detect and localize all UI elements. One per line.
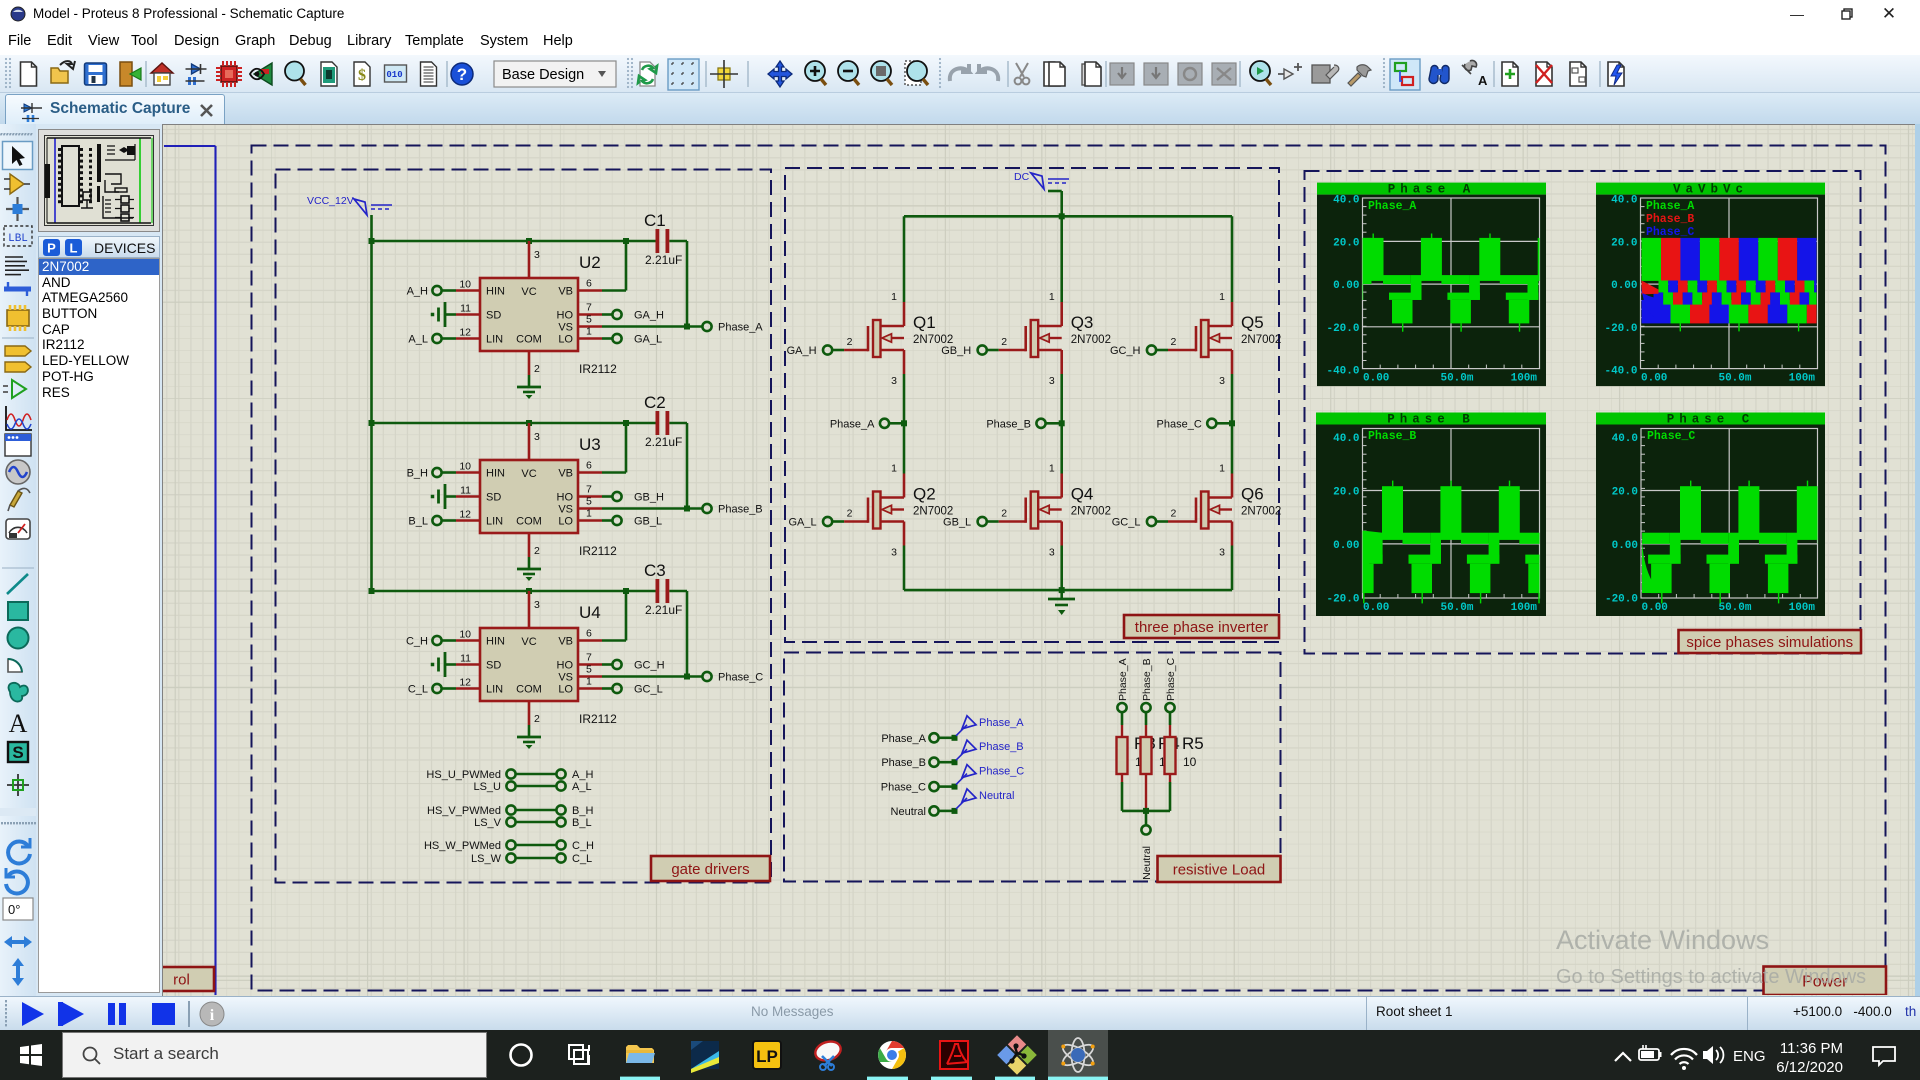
pin VC stub of U3 bbox=[528, 423, 531, 460]
terminal Phase_C (driver side) bbox=[702, 672, 763, 684]
source link bbox=[881, 520, 905, 523]
svg-text:A_L: A_L bbox=[572, 781, 592, 793]
gate plate bbox=[867, 326, 870, 351]
junction rail-start U4 bbox=[369, 588, 375, 594]
svg-text:0.00: 0.00 bbox=[1641, 373, 1667, 385]
svg-text:Phase C: Phase C bbox=[1667, 413, 1755, 427]
svg-text:20.0: 20.0 bbox=[1611, 237, 1637, 249]
terminal Phase_B (load input) with wire label arrow bbox=[881, 740, 1023, 769]
section box: gate drivers (dashed) bbox=[276, 170, 772, 883]
svg-text:40.0: 40.0 bbox=[1611, 195, 1637, 207]
left panel: overview + devices bbox=[36, 124, 162, 996]
svg-text:Phase_A: Phase_A bbox=[830, 418, 875, 430]
svg-text:3: 3 bbox=[534, 249, 540, 261]
svg-text:Phase_A: Phase_A bbox=[881, 733, 926, 745]
svg-text:HS_W_PWMed: HS_W_PWMed bbox=[424, 840, 501, 852]
terminal B_H (HIN input of U3) bbox=[407, 468, 456, 480]
svg-text:2N7002: 2N7002 bbox=[1071, 506, 1111, 518]
svg-text:11: 11 bbox=[460, 653, 471, 665]
transistor Q5 2N7002 N-MOSFET bbox=[1156, 291, 1281, 387]
svg-text:3: 3 bbox=[534, 599, 540, 611]
wire VCC rail for U2 bbox=[372, 240, 688, 243]
tab row bbox=[0, 93, 1920, 124]
terminal pair HS_V_PWMed to B_H bbox=[427, 805, 593, 817]
wire mid column (Phase_A node) bbox=[903, 374, 906, 474]
window title bar bbox=[0, 0, 1920, 28]
drain link bbox=[1038, 325, 1062, 328]
wire drain column top (Phase_A leg) bbox=[903, 216, 906, 302]
pin HO stub bbox=[578, 663, 602, 666]
SD antenna marker of U3 bbox=[431, 484, 456, 509]
junction at VS/Phase_C of U4 bbox=[684, 674, 690, 680]
svg-text:A: A bbox=[9, 709, 28, 738]
channel bar bbox=[1031, 492, 1039, 529]
svg-text:10: 10 bbox=[459, 279, 471, 291]
terminal GC_L (gate of Q6) bbox=[1112, 517, 1156, 529]
pin VS stub bbox=[578, 675, 602, 678]
terminal GB_H (gate of Q3) bbox=[941, 345, 987, 357]
svg-text:50.0m: 50.0m bbox=[1440, 373, 1473, 385]
svg-text:spice phases simulations: spice phases simulations bbox=[1686, 634, 1853, 651]
resistor R4 value 10 bbox=[1141, 725, 1180, 811]
svg-text:VCC_12V: VCC_12V bbox=[307, 195, 354, 207]
svg-text:GA_L: GA_L bbox=[788, 517, 816, 529]
junction on rail at VC of U2 bbox=[526, 238, 532, 244]
svg-text:A_H: A_H bbox=[572, 769, 593, 781]
svg-text:10: 10 bbox=[459, 461, 471, 473]
source link bbox=[1038, 349, 1062, 352]
pin HO stub bbox=[578, 495, 602, 498]
svg-text:Phase_C: Phase_C bbox=[1165, 657, 1177, 701]
wire into R4 top bbox=[1145, 712, 1148, 725]
svg-text:HO: HO bbox=[557, 310, 574, 322]
source link bbox=[1209, 520, 1233, 523]
wire top DC bus bbox=[904, 215, 1232, 218]
svg-text:Phase_A: Phase_A bbox=[1368, 200, 1416, 213]
SD antenna marker of U4 bbox=[431, 652, 456, 677]
svg-text:2.21uF: 2.21uF bbox=[645, 253, 682, 267]
channel bar bbox=[1031, 320, 1039, 357]
junction rail-start U2 bbox=[369, 238, 375, 244]
svg-text:A_L: A_L bbox=[408, 334, 428, 346]
terminal GC_H (HO output of U4) bbox=[602, 660, 665, 672]
svg-text:U4: U4 bbox=[579, 603, 601, 622]
svg-text:Q1: Q1 bbox=[913, 313, 936, 332]
label box "three phase inverter" bbox=[1124, 615, 1279, 638]
svg-text:20.0: 20.0 bbox=[1612, 487, 1638, 499]
pin HO stub bbox=[578, 313, 602, 316]
power symbol VCC_12V bbox=[307, 195, 392, 215]
gate wire of Q5 bbox=[1156, 349, 1168, 352]
svg-text:-40.0: -40.0 bbox=[1326, 366, 1359, 378]
svg-text:0.00: 0.00 bbox=[1363, 602, 1389, 614]
terminal pair LS_V to B_L bbox=[474, 817, 592, 829]
svg-text:40.0: 40.0 bbox=[1612, 433, 1638, 445]
svg-text:?: ? bbox=[457, 65, 467, 84]
junction Phase_B node bbox=[1059, 420, 1065, 426]
svg-text:2: 2 bbox=[1001, 336, 1007, 348]
svg-text:B_L: B_L bbox=[408, 516, 428, 528]
svg-text:VC: VC bbox=[521, 468, 536, 480]
pin LO stub bbox=[578, 337, 602, 340]
svg-text:U2: U2 bbox=[579, 253, 601, 272]
svg-text:B_L: B_L bbox=[572, 817, 592, 829]
svg-text:-20.0: -20.0 bbox=[1326, 593, 1359, 605]
terminal Phase_A (inverter output) bbox=[830, 418, 904, 430]
wire DC feed bbox=[1048, 191, 1062, 216]
svg-text:40.0: 40.0 bbox=[1333, 195, 1359, 207]
IC U3 IR2112 gate driver bbox=[456, 423, 617, 558]
svg-text:Phase_C: Phase_C bbox=[881, 782, 926, 794]
svg-text:Phase_A: Phase_A bbox=[1646, 200, 1694, 213]
svg-text:VC: VC bbox=[521, 286, 536, 298]
svg-text:-40.0: -40.0 bbox=[1604, 366, 1637, 378]
label box "control" (clipped at left edge) bbox=[149, 967, 214, 991]
junction on rail at VB branch of U4 bbox=[623, 588, 629, 594]
svg-text:Phase B: Phase B bbox=[1387, 413, 1475, 427]
terminal GB_L (gate of Q4) bbox=[943, 517, 987, 529]
svg-text:3: 3 bbox=[1049, 547, 1055, 559]
svg-text:C_H: C_H bbox=[406, 636, 428, 648]
svg-text:COM: COM bbox=[516, 334, 542, 346]
pin VC stub of U2 bbox=[528, 241, 531, 278]
wire source column bottom (Phase_B leg) bbox=[1060, 546, 1063, 591]
svg-text:3: 3 bbox=[1219, 375, 1225, 387]
ground symbol below U2 COM bbox=[517, 375, 541, 399]
svg-text:HIN: HIN bbox=[486, 636, 505, 648]
svg-text:2: 2 bbox=[847, 508, 853, 520]
gate wire of Q1 bbox=[832, 349, 844, 352]
svg-text:1: 1 bbox=[586, 326, 592, 338]
terminal B_L (LIN input of U3) bbox=[408, 516, 456, 528]
svg-text:S: S bbox=[12, 743, 23, 762]
transistor Q4 2N7002 N-MOSFET bbox=[987, 463, 1111, 559]
svg-text:HS_U_PWMed: HS_U_PWMed bbox=[426, 769, 501, 781]
svg-text:Q3: Q3 bbox=[1071, 313, 1094, 332]
svg-text:-20.0: -20.0 bbox=[1604, 323, 1637, 335]
svg-text:010: 010 bbox=[386, 70, 402, 80]
svg-text:i: i bbox=[210, 1007, 215, 1024]
gate plate bbox=[1195, 326, 1198, 351]
pin VC stub of U4 bbox=[528, 591, 531, 628]
svg-text:LO: LO bbox=[558, 684, 573, 696]
gate plate bbox=[1195, 498, 1198, 523]
pin COM stub of U4 bbox=[528, 701, 531, 725]
svg-text:12: 12 bbox=[459, 677, 471, 689]
svg-text:GC_H: GC_H bbox=[1110, 345, 1141, 357]
svg-text:7: 7 bbox=[586, 302, 592, 314]
svg-text:0.00: 0.00 bbox=[1363, 373, 1389, 385]
svg-text:VB: VB bbox=[558, 636, 573, 648]
wire VB branch of U4 bbox=[602, 591, 626, 641]
graph VaVbVc (oscilloscope, 3 traces) bbox=[1596, 183, 1825, 387]
section box: outer Power region (dashed) bbox=[252, 146, 1886, 991]
svg-text:100m: 100m bbox=[1789, 602, 1816, 614]
substrate arrow bbox=[1050, 508, 1062, 510]
svg-text:LS_U: LS_U bbox=[473, 781, 501, 793]
svg-text:2: 2 bbox=[1001, 508, 1007, 520]
svg-text:5: 5 bbox=[586, 664, 592, 676]
wire cap to Phase_B node of U3 bbox=[602, 423, 702, 509]
svg-text:3: 3 bbox=[891, 547, 897, 559]
wire drain column top (Phase_C leg) bbox=[1231, 216, 1234, 302]
substrate arrow bbox=[1050, 337, 1062, 339]
svg-text:COM: COM bbox=[516, 516, 542, 528]
svg-text:3: 3 bbox=[534, 431, 540, 443]
section box: spice phases simulations (dashed) bbox=[1305, 171, 1861, 654]
svg-text:11: 11 bbox=[460, 485, 471, 497]
pin HIN stub bbox=[456, 289, 480, 292]
junction Phase_A node bbox=[901, 420, 907, 426]
svg-text:2N7002: 2N7002 bbox=[1241, 506, 1281, 518]
svg-text:Q2: Q2 bbox=[913, 485, 936, 504]
svg-text:Base Design: Base Design bbox=[502, 67, 584, 83]
svg-text:Phase_C: Phase_C bbox=[1646, 226, 1694, 239]
drain link bbox=[1209, 496, 1233, 499]
resistor R5 value 10 bbox=[1165, 725, 1204, 782]
svg-text:GA_H: GA_H bbox=[634, 310, 664, 322]
svg-text:GA_H: GA_H bbox=[787, 345, 817, 357]
svg-text:A_H: A_H bbox=[407, 286, 428, 298]
svg-text:0.00: 0.00 bbox=[1333, 280, 1359, 292]
IC U4 IR2112 gate driver bbox=[456, 591, 617, 726]
terminal C_L (LIN input of U4) bbox=[408, 684, 456, 696]
svg-text:VS: VS bbox=[558, 672, 573, 684]
svg-text:Neutral: Neutral bbox=[979, 790, 1014, 802]
gate wire of Q4 bbox=[987, 520, 999, 523]
svg-text:DC: DC bbox=[1014, 171, 1030, 183]
svg-text:COM: COM bbox=[516, 684, 542, 696]
channel bar bbox=[1201, 492, 1209, 529]
junction Phase_C node bbox=[1229, 420, 1235, 426]
svg-text:VS: VS bbox=[558, 322, 573, 334]
label box "gate drivers" bbox=[651, 856, 770, 881]
svg-text:3: 3 bbox=[891, 375, 897, 387]
terminal Phase_A (above R3) bbox=[1117, 658, 1129, 712]
source link bbox=[1209, 349, 1233, 352]
junction on rail at VB branch of U3 bbox=[623, 420, 629, 426]
wire mid column (Phase_B node) bbox=[1060, 374, 1063, 474]
svg-text:IR2112: IR2112 bbox=[579, 362, 617, 376]
svg-text:Phase_B: Phase_B bbox=[881, 757, 926, 769]
terminal C_H (HIN input of U4) bbox=[406, 636, 456, 648]
IC U2 IR2112 gate driver bbox=[456, 241, 617, 376]
svg-text:gate drivers: gate drivers bbox=[671, 861, 749, 878]
svg-text:0.00: 0.00 bbox=[1642, 602, 1668, 614]
svg-text:Phase A: Phase A bbox=[1388, 183, 1476, 197]
terminal GA_L (gate of Q2) bbox=[788, 517, 832, 529]
ground symbol below U4 COM bbox=[517, 725, 541, 749]
left tool column bbox=[0, 124, 36, 996]
svg-text:6: 6 bbox=[586, 628, 592, 640]
ground symbol below U3 COM bbox=[517, 557, 541, 581]
wire VB branch of U2 bbox=[602, 241, 626, 291]
gate plate bbox=[1024, 498, 1027, 523]
pin COM stub of U2 bbox=[528, 351, 531, 375]
svg-text:Phase_B: Phase_B bbox=[1368, 430, 1416, 443]
svg-text:50.0m: 50.0m bbox=[1440, 602, 1473, 614]
pin LIN stub bbox=[456, 519, 480, 522]
svg-text:12: 12 bbox=[459, 327, 471, 339]
svg-text:Phase_B: Phase_B bbox=[986, 418, 1031, 430]
capacitor C2 2.21uF bbox=[644, 393, 682, 449]
svg-text:HIN: HIN bbox=[486, 468, 505, 480]
svg-text:IR2112: IR2112 bbox=[579, 544, 617, 558]
pin VB stub bbox=[578, 289, 602, 292]
svg-text:6: 6 bbox=[586, 460, 592, 472]
pin VB stub bbox=[578, 639, 602, 642]
svg-text:2: 2 bbox=[534, 713, 540, 725]
svg-text:HS_V_PWMed: HS_V_PWMed bbox=[427, 805, 501, 817]
svg-text:2: 2 bbox=[847, 336, 853, 348]
pin VS stub bbox=[578, 325, 602, 328]
svg-text:LIN: LIN bbox=[486, 684, 503, 696]
svg-text:11:36 PM: 11:36 PM bbox=[1780, 1040, 1843, 1057]
SD antenna marker of U2 bbox=[431, 302, 456, 327]
channel bar bbox=[873, 492, 881, 529]
svg-text:VS: VS bbox=[558, 504, 573, 516]
svg-text:10: 10 bbox=[459, 629, 471, 641]
wire source column bottom (Phase_C leg) bbox=[1231, 546, 1234, 591]
pin LO stub bbox=[578, 687, 602, 690]
junction on rail at VB branch of U2 bbox=[623, 238, 629, 244]
svg-text:1: 1 bbox=[891, 463, 897, 475]
capacitor C3 2.21uF bbox=[644, 561, 682, 617]
svg-text:-20.0: -20.0 bbox=[1326, 323, 1359, 335]
pin LIN stub bbox=[456, 687, 480, 690]
svg-text:2: 2 bbox=[534, 363, 540, 375]
svg-text:11: 11 bbox=[460, 303, 471, 315]
pin SD stub bbox=[456, 663, 480, 666]
substrate arrow bbox=[1220, 337, 1232, 339]
terminal Phase_C (inverter output) bbox=[1157, 418, 1232, 430]
sheet border (solid blue) bbox=[164, 146, 216, 995]
wire VCC rail for U4 bbox=[372, 590, 688, 593]
gate wire of Q2 bbox=[832, 520, 844, 523]
svg-text:1: 1 bbox=[1049, 463, 1055, 475]
svg-text:Phase_C: Phase_C bbox=[1157, 418, 1202, 430]
pin SD stub bbox=[456, 313, 480, 316]
svg-text:Phase_C: Phase_C bbox=[1647, 430, 1695, 443]
terminal GA_H (gate of Q1) bbox=[787, 345, 833, 357]
svg-text:three phase inverter: three phase inverter bbox=[1135, 619, 1268, 636]
svg-text:resistive Load: resistive Load bbox=[1173, 861, 1266, 878]
terminal Phase_B (driver side) bbox=[702, 504, 762, 516]
resistor R3 value 10 bbox=[1117, 725, 1156, 782]
svg-text:GB_L: GB_L bbox=[943, 517, 971, 529]
junction top bus center bbox=[1059, 213, 1065, 219]
svg-text:C_L: C_L bbox=[572, 853, 592, 865]
svg-text:LO: LO bbox=[558, 334, 573, 346]
wire VCC rail for U3 bbox=[372, 422, 688, 425]
svg-text:SD: SD bbox=[486, 660, 501, 672]
wire cap to Phase_A node of U2 bbox=[602, 241, 702, 327]
svg-text:HO: HO bbox=[557, 492, 574, 504]
svg-text:rol: rol bbox=[173, 971, 190, 988]
wire drain column top (Phase_B leg) bbox=[1060, 216, 1063, 302]
svg-text:Phase_C: Phase_C bbox=[979, 766, 1024, 778]
section box: resistive load (dashed) bbox=[784, 653, 1281, 882]
power symbol DC bbox=[1014, 171, 1069, 189]
terminal Phase_B (inverter output) bbox=[986, 418, 1061, 430]
pin COM stub of U3 bbox=[528, 533, 531, 557]
junction neutral star point bbox=[1143, 808, 1149, 814]
svg-text:5: 5 bbox=[586, 496, 592, 508]
svg-text:VB: VB bbox=[558, 468, 573, 480]
gate wire of Q3 bbox=[987, 349, 999, 352]
pin VB stub bbox=[578, 471, 602, 474]
terminal GB_L (LO output of U3) bbox=[602, 516, 662, 528]
svg-text:Phase_B: Phase_B bbox=[1646, 213, 1694, 226]
svg-text:100m: 100m bbox=[1511, 602, 1538, 614]
wire load neutral bus bbox=[1122, 782, 1170, 825]
terminal pair HS_W_PWMed to C_H bbox=[424, 840, 594, 852]
junction bottom bus center bbox=[1059, 587, 1065, 593]
svg-text:LO: LO bbox=[558, 516, 573, 528]
svg-text:2: 2 bbox=[534, 545, 540, 557]
svg-text:50.0m: 50.0m bbox=[1718, 373, 1751, 385]
source link bbox=[1038, 520, 1062, 523]
svg-text:40.0: 40.0 bbox=[1333, 433, 1359, 445]
svg-text:Phase_B: Phase_B bbox=[718, 504, 763, 516]
svg-text:20.0: 20.0 bbox=[1333, 487, 1359, 499]
substrate arrow bbox=[892, 508, 904, 510]
svg-text:50.0m: 50.0m bbox=[1718, 602, 1751, 614]
svg-text:LIN: LIN bbox=[486, 516, 503, 528]
transistor Q1 2N7002 N-MOSFET bbox=[832, 291, 953, 387]
terminal Phase_C (above R5) bbox=[1165, 657, 1177, 712]
svg-text:ENG: ENG bbox=[1733, 1048, 1766, 1065]
svg-text:GB_L: GB_L bbox=[634, 516, 662, 528]
capacitor C1 2.21uF bbox=[644, 211, 682, 267]
svg-text:6: 6 bbox=[586, 278, 592, 290]
terminal GC_L (LO output of U4) bbox=[602, 684, 663, 696]
svg-text:Phase_A: Phase_A bbox=[979, 717, 1024, 729]
svg-text:1: 1 bbox=[891, 291, 897, 303]
terminal GB_H (HO output of U3) bbox=[602, 492, 664, 504]
svg-text:Phase_A: Phase_A bbox=[718, 322, 763, 334]
svg-text:C3: C3 bbox=[644, 561, 666, 580]
svg-text:Phase_C: Phase_C bbox=[718, 672, 763, 684]
svg-text:C_H: C_H bbox=[572, 840, 594, 852]
svg-text:100m: 100m bbox=[1789, 373, 1816, 385]
svg-text:0.00: 0.00 bbox=[1611, 280, 1637, 292]
label box "resistive Load" bbox=[1158, 856, 1281, 882]
transistor Q2 2N7002 N-MOSFET bbox=[832, 463, 953, 559]
pin SD stub bbox=[456, 495, 480, 498]
graph Phase B (oscilloscope) bbox=[1316, 413, 1546, 617]
junction on rail at VC of U4 bbox=[526, 588, 532, 594]
svg-text:SD: SD bbox=[486, 492, 501, 504]
terminal GA_H (HO output of U2) bbox=[602, 310, 664, 322]
wire source column bottom (Phase_A leg) bbox=[903, 546, 906, 591]
channel bar bbox=[873, 320, 881, 357]
svg-text:Q5: Q5 bbox=[1241, 313, 1264, 332]
svg-text:3: 3 bbox=[1049, 375, 1055, 387]
wire into R5 top bbox=[1169, 712, 1172, 725]
svg-text:7: 7 bbox=[586, 652, 592, 664]
terminal GC_H (gate of Q5) bbox=[1110, 345, 1156, 357]
terminal pair LS_U to A_L bbox=[473, 781, 591, 793]
svg-text:0.00: 0.00 bbox=[1333, 540, 1359, 552]
svg-text:20.0: 20.0 bbox=[1333, 237, 1359, 249]
svg-text:$: $ bbox=[358, 67, 366, 84]
svg-text:A: A bbox=[1478, 73, 1488, 88]
svg-text:GC_H: GC_H bbox=[634, 660, 665, 672]
svg-text:5: 5 bbox=[586, 314, 592, 326]
svg-text:-20.0: -20.0 bbox=[1605, 593, 1638, 605]
svg-text:VaVbVc: VaVbVc bbox=[1673, 183, 1748, 197]
